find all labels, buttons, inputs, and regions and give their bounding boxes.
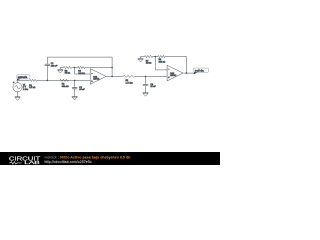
svg-text:1 kHz: 1 kHz xyxy=(23,89,28,91)
node label salida xyxy=(193,68,208,74)
svg-text:melnick : Filtro Activo pasa b: melnick : Filtro Activo pasa bajo chebys… xyxy=(45,156,131,160)
capacitor C4 branch xyxy=(145,76,147,92)
op-amp OA2 xyxy=(167,65,183,81)
svg-text:http://circuitlab.com/c257e5x: http://circuitlab.com/c257e5x xyxy=(45,160,92,164)
wire R5 to opamp2 plus xyxy=(135,75,167,77)
output wire OA2 xyxy=(183,72,196,74)
svg-text:1.74 kΩ: 1.74 kΩ xyxy=(126,83,134,85)
svg-text:LAB: LAB xyxy=(24,160,40,165)
output wire OA1 to R5 xyxy=(106,75,123,77)
circuitlab logo xyxy=(9,156,41,165)
svg-text:salida: salida xyxy=(195,69,204,73)
svg-text:866.4Ω: 866.4Ω xyxy=(62,86,69,88)
capacitor C1 branch xyxy=(46,57,48,80)
resistor R5 xyxy=(123,75,134,77)
svg-text:10 kΩ: 10 kΩ xyxy=(146,63,152,65)
svg-text:158 kΩ: 158 kΩ xyxy=(159,61,166,63)
wire V1 top to R1 xyxy=(18,80,30,82)
wire junction to minus input xyxy=(75,68,91,75)
wire R1 to opamp plus xyxy=(37,79,90,81)
svg-text:entrada: entrada xyxy=(18,76,28,79)
mid wire 2 segments xyxy=(141,57,187,74)
junction feedback / output xyxy=(111,76,113,78)
junction mid wire / feedback vertical xyxy=(111,67,113,69)
junction feedback2 / output xyxy=(186,72,188,74)
resistor R1 xyxy=(30,79,38,81)
mid wire segments xyxy=(60,67,112,69)
op-amp OA1 xyxy=(90,69,106,85)
resistor R4 xyxy=(78,66,86,68)
node label entrada xyxy=(16,75,30,81)
resistor R7 xyxy=(145,55,153,57)
svg-text:10 nF: 10 nF xyxy=(150,86,156,88)
junction R7/R8 xyxy=(155,56,157,58)
ground under C2 xyxy=(72,95,78,97)
svg-text:10 kΩ: 10 kΩ xyxy=(65,73,71,75)
capacitor C2 branch xyxy=(74,80,76,96)
node A1 junction xyxy=(47,80,49,82)
ground at R3 left end xyxy=(59,68,61,70)
wires and components xyxy=(13,55,209,100)
junction R3/R4 xyxy=(74,67,76,69)
svg-text:2.2 kΩ: 2.2 kΩ xyxy=(29,87,36,89)
wire junction2 to minus input xyxy=(155,57,167,70)
voltage source V1 xyxy=(13,83,22,92)
svg-text:LM741: LM741 xyxy=(170,75,177,77)
ground under V1 xyxy=(17,92,19,97)
svg-text:LM741: LM741 xyxy=(93,78,100,80)
node B1 junction xyxy=(74,80,76,82)
resistor R8 xyxy=(158,55,166,57)
node A2 junction xyxy=(145,76,147,78)
svg-text:100 nF: 100 nF xyxy=(51,65,58,67)
top feedback wire xyxy=(47,57,112,76)
footer bar xyxy=(0,152,220,165)
svg-text:10 nF: 10 nF xyxy=(79,89,85,91)
ground under C4 xyxy=(143,92,149,94)
resistor R3 xyxy=(64,66,72,68)
resistor R2 xyxy=(60,79,69,81)
ground at R7 left end xyxy=(140,57,142,59)
